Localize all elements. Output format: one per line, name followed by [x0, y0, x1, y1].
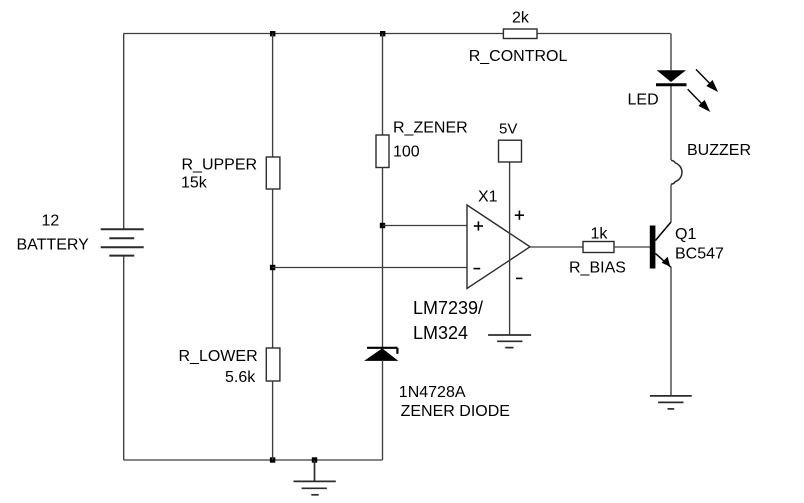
transistor Q1 BC547 [650, 226, 656, 269]
wire R_BIAS to base [614, 246, 650, 248]
resistor R_BIAS 1k [583, 242, 614, 253]
svg-text:1k: 1k [591, 226, 609, 243]
wire battery positive lead [123, 34, 125, 230]
wire zener bottom [382, 360, 384, 460]
op-amp + input symbol [474, 221, 483, 230]
wire top rail [124, 33, 671, 35]
op-amp V- symbol [516, 277, 523, 279]
resistor R_CONTROL 2k [503, 29, 537, 39]
svg-text:2k: 2k [512, 9, 530, 26]
battery 12V [101, 229, 144, 255]
svg-text:BATTERY: BATTERY [17, 237, 90, 254]
wire LED to top rail [670, 34, 672, 71]
svg-text:Q1: Q1 [675, 226, 696, 243]
svg-text:R_LOWER: R_LOWER [179, 348, 258, 365]
op-amp V+ symbol [515, 211, 524, 220]
wire divider middle [272, 189, 274, 348]
node junction dot top rail / R_UPPER [270, 31, 275, 36]
node junction dot top rail / R_ZENER [380, 31, 385, 36]
LED emission arrow 2 [688, 89, 709, 110]
svg-text:R_CONTROL: R_CONTROL [469, 48, 568, 65]
svg-text:1N4728A: 1N4728A [399, 384, 466, 401]
svg-text:X1: X1 [478, 189, 498, 206]
wire zener branch top [382, 34, 384, 136]
wire battery negative lead [123, 256, 125, 460]
wire emitter down [670, 267, 672, 396]
wire R_LOWER bottom [272, 381, 274, 460]
wire zener branch middle [382, 168, 384, 348]
svg-text:5.6k: 5.6k [225, 369, 256, 386]
svg-text:R_ZENER: R_ZENER [393, 120, 468, 137]
svg-text:LED: LED [628, 91, 659, 108]
op-amp - input symbol [474, 268, 481, 270]
ground (op-amp) [488, 335, 531, 348]
svg-text:R_UPPER: R_UPPER [182, 157, 258, 174]
svg-text:100: 100 [393, 144, 420, 161]
svg-text:ZENER DIODE: ZENER DIODE [401, 403, 510, 420]
buzzer symbol [671, 160, 682, 184]
resistor R_UPPER 15k [266, 157, 280, 189]
node junction dot zener/op-amp+ [380, 223, 385, 228]
wire bottom ground rail [124, 459, 383, 461]
svg-text:LM7239/: LM7239/ [413, 298, 483, 318]
wire divider node to op-amp - input [273, 267, 467, 269]
LED emission arrow 1 [696, 69, 717, 90]
5V supply box [499, 140, 522, 162]
ground (bottom center) [294, 460, 336, 495]
zener diode D1 1N4728A [366, 349, 397, 360]
node junction dot bottom rail / R_LOWER [270, 457, 275, 462]
op-amp U1 X1 triangle [467, 205, 530, 289]
node junction dot bottom rail / ground [312, 457, 317, 462]
svg-text:12: 12 [42, 213, 60, 230]
wire op-amp output [530, 246, 583, 248]
ground (emitter) [650, 396, 692, 409]
wire zener node to op-amp + input [383, 225, 468, 227]
svg-text:BUZZER: BUZZER [687, 142, 751, 159]
svg-text:5V: 5V [499, 121, 517, 138]
LED diode [657, 70, 686, 82]
svg-text:LM324: LM324 [413, 323, 468, 343]
svg-text:R_BIAS: R_BIAS [569, 259, 626, 276]
resistor R_LOWER 5.6k [266, 348, 280, 381]
op-amp power rail wire 5V to ground [509, 162, 511, 335]
wire collector up [670, 185, 672, 223]
wire R_UPPER branch top [272, 34, 274, 158]
svg-text:BC547: BC547 [675, 245, 724, 262]
svg-text:15k: 15k [181, 175, 208, 192]
node junction dot divider [270, 265, 275, 270]
wire buzzer to LED [670, 86, 672, 161]
resistor R_ZENER 100 [376, 135, 389, 168]
